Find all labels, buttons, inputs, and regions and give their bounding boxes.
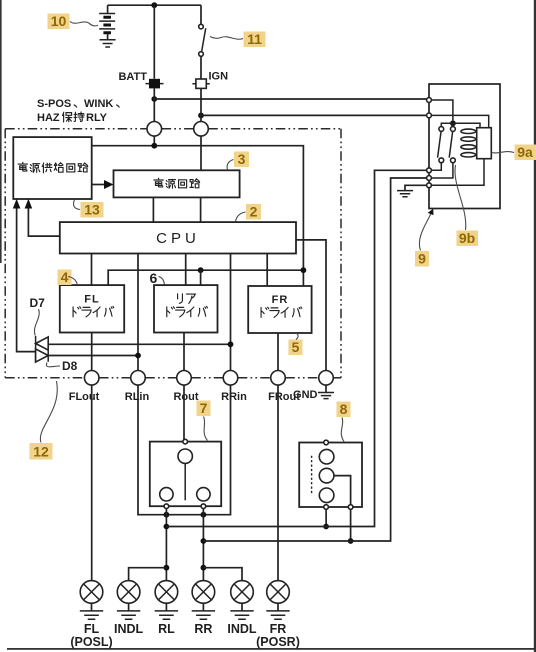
label 10 [48, 13, 99, 29]
svg-text:RL: RL [158, 622, 175, 636]
wire CPU to FL driver [91, 254, 93, 286]
battery 10 [99, 5, 115, 39]
svg-text:FL: FL [84, 622, 100, 636]
svg-text:RR: RR [194, 622, 212, 636]
relay 9 contact b upper [451, 127, 456, 132]
svg-text:4: 4 [61, 269, 69, 285]
relay contact hold (right circle) [194, 122, 209, 137]
wire relay8 left output [325, 509, 327, 526]
relay 9 contact b blade [449, 132, 452, 158]
relay 9 contact b lower [451, 158, 456, 163]
label 5 [289, 333, 303, 355]
CPU 2 box [60, 222, 296, 253]
lamp INDL left [114, 581, 144, 636]
wire Rout to relay 7 [183, 385, 185, 439]
wire rail2 to relay9 contact [203, 178, 426, 541]
svg-text:INDL: INDL [114, 622, 144, 636]
svg-text:8: 8 [340, 401, 348, 417]
label 11 [210, 31, 266, 47]
switch 11 (IGN key switch) [199, 5, 206, 79]
relay 7 left contact [160, 488, 173, 509]
svg-text:S-POS: S-POS [37, 98, 71, 110]
wire rear driver to Rout [183, 333, 185, 371]
wire relay9 BATT feed [431, 100, 453, 120]
relay 9 terminal ground [427, 183, 432, 188]
power supply circuit 13 box [13, 137, 91, 199]
svg-text:(POSR): (POSR) [256, 635, 300, 649]
wire BATT to relay 9 [154, 88, 426, 121]
wire CPU to GND terminal [296, 240, 326, 371]
wire IGN to relay 9 [201, 88, 427, 121]
wire power circuit to CPU (right) [200, 197, 202, 222]
svg-text:10: 10 [51, 13, 67, 29]
boundary 12 (ECU dash-dot frame) [5, 129, 341, 378]
wire contact a out [431, 163, 441, 171]
svg-text:RRin: RRin [221, 391, 247, 403]
junction RR link [201, 565, 207, 571]
svg-text:6: 6 [150, 270, 158, 286]
svg-text:12: 12 [33, 444, 49, 460]
wire coil top to armature [453, 123, 480, 127]
svg-text:D7: D7 [30, 296, 46, 310]
wire +B rail [92, 136, 304, 286]
wire power circuit to CPU (left) [152, 197, 154, 222]
svg-text:5: 5 [292, 339, 300, 355]
wire D7 to RRin line [48, 341, 233, 347]
wire relay8 right output [350, 509, 352, 541]
wire relay7 right output to RR lamp [202, 509, 204, 581]
label 4 [58, 269, 78, 285]
lamp RL [155, 581, 178, 636]
relay 9 contact a blade [438, 132, 441, 158]
relay 7 box [150, 442, 221, 507]
junction relay9 coil top [450, 120, 456, 126]
wire FRout to FR lamp [277, 385, 279, 580]
relay 9 box [429, 84, 500, 209]
svg-text:RLin: RLin [125, 391, 150, 403]
relay 9 terminal IGN [427, 113, 432, 118]
power circuit 3 box [114, 170, 240, 197]
junction RL rail [164, 524, 170, 530]
svg-text:RLY: RLY [86, 112, 108, 124]
junction BATT top [151, 2, 157, 8]
wire coil top to contacts [441, 123, 453, 126]
svg-text:11: 11 [247, 31, 262, 47]
svg-text:BATT: BATT [118, 71, 147, 83]
text S-POS WINK HAZ-hold-RLY [37, 98, 119, 124]
svg-text:FL: FL [84, 294, 99, 306]
wire battery top rail [108, 4, 201, 6]
hazard relay 8 box [299, 440, 362, 509]
wire contact b out [431, 163, 453, 178]
svg-text:9b: 9b [459, 230, 475, 246]
svg-text:HAZ: HAZ [37, 112, 60, 124]
svg-text:D8: D8 [62, 359, 78, 373]
relay 9 terminal out2 [427, 176, 432, 181]
wire CPU to RLin terminal [137, 254, 139, 371]
junction IGN branch [198, 113, 204, 119]
wire supply feedback bus (to diodes) [13, 199, 36, 352]
lamp FL (POSL) [70, 581, 112, 649]
label 9b [455, 165, 478, 246]
lamp INDL right [227, 581, 257, 636]
svg-text:FR: FR [272, 294, 289, 306]
junction rail FR driver [301, 267, 307, 273]
relay 9 contact a lower [439, 158, 444, 163]
wire FLout to FL lamp [91, 385, 93, 580]
connector IGN [192, 71, 228, 89]
junction RR rail [201, 538, 207, 544]
label 9a [492, 144, 536, 160]
wire FR driver to FRout [277, 333, 279, 371]
svg-text:INDL: INDL [227, 622, 257, 636]
wire BATT vertical [153, 5, 155, 79]
wire IGN contact to power circuit 3 [200, 136, 202, 170]
arrow supply to power circuit [92, 180, 114, 189]
junction sense RR [201, 512, 207, 518]
wire relay7 left output to RL lamp [165, 509, 167, 581]
wire relay9 IGN feed [431, 115, 488, 127]
junction relay8 rail2 [348, 538, 354, 544]
wire relay9 ground lead [405, 185, 427, 190]
wire CPU to FR driver [266, 254, 268, 287]
junction RL link [164, 565, 170, 571]
lamp FR (POSR) [256, 581, 300, 649]
relay 9 terminal out1 [427, 168, 432, 173]
terminal RRin [221, 371, 247, 404]
wire INDL left link [129, 568, 167, 581]
ground (battery) [100, 40, 116, 47]
label 2 [236, 204, 262, 222]
svg-text:IGN: IGN [209, 71, 229, 83]
label 12 [30, 381, 58, 460]
coil 9b [461, 129, 476, 157]
junction BATT branch [151, 96, 157, 102]
wire CPU to rear driver [185, 254, 187, 286]
terminal FRout [268, 371, 300, 404]
junction relay8 rail1 [323, 524, 329, 530]
terminal Rout [173, 371, 198, 404]
svg-text:3: 3 [238, 151, 246, 167]
diode D8 [36, 349, 78, 373]
relay 7 right contact [197, 488, 210, 509]
wire supply to CPU [25, 199, 60, 236]
terminal FLout [69, 371, 100, 404]
junction sense RL [164, 512, 170, 518]
ground (GND terminal) [318, 385, 334, 399]
svg-text:9: 9 [418, 251, 426, 267]
wire CPU to RRin terminal [230, 254, 232, 371]
junction +B rail [151, 143, 157, 149]
svg-text:13: 13 [84, 202, 100, 218]
relay 7 common contact [178, 439, 192, 500]
wire driver power rail [108, 270, 303, 285]
svg-text:Rout: Rout [173, 391, 198, 403]
svg-text:(POSL): (POSL) [70, 635, 112, 649]
svg-text:GND: GND [293, 389, 318, 401]
diode D7 [30, 296, 49, 362]
armature 9a [431, 128, 491, 186]
FR driver 5 box [248, 286, 311, 333]
svg-text:2: 2 [250, 204, 258, 220]
FL driver 4 box [60, 285, 124, 332]
rear driver 6 box [154, 285, 218, 332]
ground (relay 9) [397, 191, 413, 197]
svg-text:FR: FR [270, 622, 287, 636]
wire RLin RRin sense loop [138, 385, 231, 515]
svg-text:7: 7 [200, 400, 208, 416]
svg-text:9a: 9a [517, 144, 533, 160]
relay contact S-POS hold (left circle) [147, 122, 162, 137]
connector BATT [118, 71, 163, 89]
wire D8 to RLin line [48, 353, 141, 359]
lamp RR [192, 581, 215, 636]
svg-text:FLout: FLout [69, 391, 100, 403]
relay 9 terminal BATT [427, 98, 432, 103]
label 7 [197, 400, 211, 441]
label 3 [227, 151, 249, 170]
terminal RLin [125, 371, 150, 404]
label 8 [337, 401, 351, 442]
relay 9 contact a upper [439, 127, 444, 132]
terminal GND [293, 371, 333, 402]
wire rail1 to relay9 contact [166, 170, 426, 526]
label 9 [415, 209, 434, 267]
wire FL driver to FLout [91, 333, 93, 371]
wire INDL right link [203, 568, 242, 581]
label 13 [74, 200, 104, 218]
junction rail rear driver [198, 267, 204, 285]
label 6 [150, 270, 165, 286]
svg-text:WINK: WINK [84, 98, 113, 110]
svg-text:CPU: CPU [156, 230, 200, 247]
